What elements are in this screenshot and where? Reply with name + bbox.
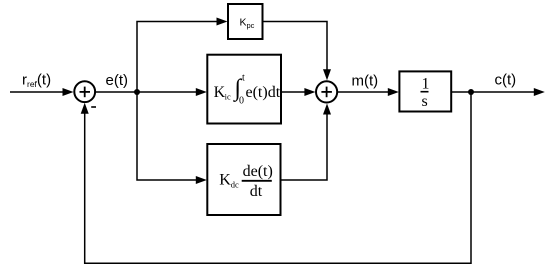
svg-text:e(t): e(t) xyxy=(106,72,129,89)
svg-text:de(t): de(t) xyxy=(243,163,273,180)
svg-text:dc: dc xyxy=(231,180,239,190)
wire: S2 to 1/s block, m(t) xyxy=(338,91,389,93)
wire: feedback from node B down, across bottom, up into S1 bottom xyxy=(85,92,471,263)
svg-text:e(t)dt: e(t)dt xyxy=(246,84,281,101)
summing junction S1 xyxy=(74,81,95,102)
svg-text:s: s xyxy=(422,93,428,110)
wire: S1 to integral block, through node A xyxy=(96,91,196,93)
wire: 1/s out to c(t), through node B xyxy=(451,91,534,93)
block derivative: Kdc de(t)/dt xyxy=(207,144,280,215)
svg-text:1: 1 xyxy=(422,76,430,93)
wire: node A down and right to derivative block xyxy=(137,92,196,180)
block Kpc xyxy=(228,4,263,39)
minus sign near S1 xyxy=(91,106,96,108)
node B (feedback tap dot) xyxy=(468,89,474,95)
svg-text:0: 0 xyxy=(239,96,244,107)
svg-text:t: t xyxy=(242,73,245,84)
svg-text:m(t): m(t) xyxy=(352,73,379,90)
wire: Kpc output right then down into S2 top xyxy=(263,22,328,70)
wire: input r_ref(t) xyxy=(10,91,63,93)
block integral: Kic ∫0t e(t)dt xyxy=(207,55,281,124)
wire: node A up and right to Kpc xyxy=(137,22,217,93)
plus sign in S2 xyxy=(321,91,332,93)
svg-text:c(t): c(t) xyxy=(495,72,517,89)
wire: integral out to S2 left xyxy=(281,91,305,93)
summing junction S2 xyxy=(316,81,337,102)
svg-text:K: K xyxy=(219,172,231,189)
svg-text:ic: ic xyxy=(225,92,231,102)
svg-text:rref(t): rref(t) xyxy=(22,72,51,89)
svg-text:dt: dt xyxy=(250,183,263,200)
node A (branch dot) xyxy=(134,89,140,95)
plus sign in S1 xyxy=(80,91,91,93)
block 1/s xyxy=(399,71,451,111)
wire: derivative out right then up into S2 bottom xyxy=(281,114,328,180)
